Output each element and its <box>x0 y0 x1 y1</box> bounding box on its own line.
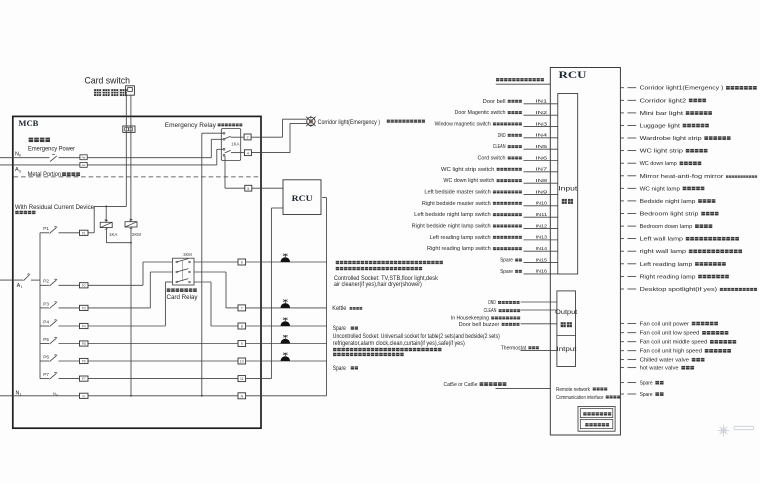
svg-text:2: 2 <box>247 136 249 140</box>
svg-text:Bedside night lamp: Bedside night lamp <box>640 199 696 205</box>
svg-text:8: 8 <box>241 325 243 329</box>
svg-text:CLEAN: CLEAN <box>493 144 506 150</box>
svg-text:Card Relay: Card Relay <box>167 294 199 301</box>
svg-text:P5: P5 <box>82 342 86 346</box>
svg-text:4: 4 <box>247 151 249 155</box>
svg-text:IN11: IN11 <box>536 212 548 218</box>
svg-text:MCB: MCB <box>18 118 38 128</box>
svg-text:11: 11 <box>240 377 244 381</box>
svg-text:WC down light switch: WC down light switch <box>443 178 494 184</box>
svg-text:Luggage light: Luggage light <box>640 123 681 129</box>
svg-text:IN13: IN13 <box>536 235 548 241</box>
svg-text:RCU: RCU <box>559 71 587 81</box>
svg-text:Intput: Intput <box>557 346 577 353</box>
svg-text:Left wall lamp: Left wall lamp <box>640 237 684 243</box>
svg-text:P4: P4 <box>82 325 86 329</box>
svg-text:With Residual Current Device: With Residual Current Device <box>15 204 95 211</box>
svg-text:Spare: Spare <box>640 392 653 398</box>
svg-text:Emergency Power: Emergency Power <box>28 146 76 153</box>
svg-text:Fan coil unit power: Fan coil unit power <box>640 321 690 327</box>
svg-text:WC light strip switch: WC light strip switch <box>441 167 495 173</box>
svg-text:Kettle: Kettle <box>332 305 346 312</box>
svg-text:CLEAN: CLEAN <box>484 308 497 314</box>
svg-text:IN10: IN10 <box>536 201 548 207</box>
svg-text:P3: P3 <box>43 301 49 306</box>
svg-text:Wardrobe light strip: Wardrobe light strip <box>640 136 702 142</box>
svg-text:6: 6 <box>241 261 243 265</box>
svg-text:IN5: IN5 <box>536 144 548 150</box>
svg-text:5: 5 <box>247 187 249 191</box>
svg-text:P2: P2 <box>43 279 49 284</box>
svg-text:2KM: 2KM <box>132 232 141 237</box>
svg-text:Right reading lamp switch: Right reading lamp switch <box>427 246 491 252</box>
svg-text:Left reading lamp: Left reading lamp <box>640 262 693 268</box>
svg-text:E: E <box>56 393 58 397</box>
svg-text:air cleaner(if yes),hair dryer: air cleaner(if yes),hair dryer(shower) <box>334 282 422 288</box>
svg-text:E: E <box>19 169 21 173</box>
svg-text:10: 10 <box>240 360 244 364</box>
svg-text:Ae: Ae <box>82 163 86 167</box>
svg-text:In Housekeeping: In Housekeeping <box>451 316 489 322</box>
svg-text:Corridor light(Emergency ): Corridor light(Emergency ) <box>318 119 381 126</box>
svg-text:IN3: IN3 <box>536 121 548 127</box>
svg-text:1: 1 <box>21 285 23 289</box>
svg-text:Spare: Spare <box>500 258 513 264</box>
svg-text:E: E <box>19 154 21 158</box>
svg-text:Window magnetic switch: Window magnetic switch <box>435 121 491 127</box>
svg-text:RCU: RCU <box>292 193 314 203</box>
svg-text:Desktop spotlight(if yes): Desktop spotlight(if yes) <box>640 287 718 293</box>
svg-text:IN12: IN12 <box>536 223 548 229</box>
svg-text:Bedroom light strip: Bedroom light strip <box>640 212 699 218</box>
svg-text:Door Magentic switch: Door Magentic switch <box>455 110 506 116</box>
svg-text:WC down lamp: WC down lamp <box>640 161 677 167</box>
svg-text:Mini bar light: Mini bar light <box>640 111 684 117</box>
svg-text:Input: Input <box>558 186 577 193</box>
svg-text:Thermostat: Thermostat <box>501 345 527 351</box>
svg-text:Ne: Ne <box>82 156 86 160</box>
svg-text:P6: P6 <box>82 360 86 364</box>
svg-text:Bedroom down lamp: Bedroom down lamp <box>640 224 693 230</box>
svg-text:Cord switch: Cord switch <box>478 156 506 162</box>
svg-text:Spare: Spare <box>333 365 346 372</box>
svg-text:IN9: IN9 <box>536 189 548 195</box>
svg-text:WC light strip: WC light strip <box>640 149 684 155</box>
svg-text:Cat5e or Cat6e: Cat5e or Cat6e <box>444 382 478 388</box>
svg-text:Emergency Relay: Emergency Relay <box>165 122 217 129</box>
svg-text:Corridor light1(Emergency ): Corridor light1(Emergency ) <box>640 86 724 92</box>
svg-text:IN1: IN1 <box>536 99 548 105</box>
svg-text:Controlled Socket: TV,STB,floo: Controlled Socket: TV,STB,floor light,de… <box>334 276 439 282</box>
svg-text:Mirror heat-anti-fog mirror: Mirror heat-anti-fog mirror <box>640 174 724 180</box>
svg-text:WC night lamp: WC night lamp <box>640 186 680 192</box>
svg-text:Corridor light2: Corridor light2 <box>640 98 687 104</box>
svg-text:Right bedside master switch: Right bedside master switch <box>422 201 491 207</box>
svg-text:IN6: IN6 <box>536 155 548 161</box>
svg-text:P7: P7 <box>43 372 49 377</box>
svg-text:Card switch: Card switch <box>85 75 131 86</box>
svg-text:1KA: 1KA <box>231 142 239 147</box>
svg-text:IN8: IN8 <box>536 178 548 184</box>
svg-text:7: 7 <box>241 307 243 311</box>
svg-text:Uncontrolled Socket: Universal: Uncontrolled Socket: Universall socket f… <box>333 334 500 340</box>
svg-text:IN2: IN2 <box>536 110 548 116</box>
svg-text:Fan coil unit low speed: Fan coil unit low speed <box>640 331 700 337</box>
svg-text:P7: P7 <box>82 377 86 381</box>
svg-text:1: 1 <box>20 393 22 397</box>
svg-text:Door bell: Door bell <box>483 99 506 105</box>
svg-text:P1: P1 <box>82 231 86 235</box>
svg-text:IN7: IN7 <box>536 167 548 173</box>
svg-text:P2: P2 <box>82 284 86 288</box>
svg-text:refrigerator,alarm clock,clean: refrigerator,alarm clock,clean,curtain(i… <box>333 341 465 347</box>
svg-text:Spare: Spare <box>640 381 653 387</box>
svg-text:right wall lamp: right wall lamp <box>640 249 687 255</box>
svg-text:IN14: IN14 <box>536 246 548 252</box>
svg-text:hot water valve: hot water valve <box>640 366 679 372</box>
svg-text:P3: P3 <box>82 306 86 310</box>
svg-text:Fan coil unit high speed: Fan coil unit high speed <box>640 349 703 355</box>
svg-text:1KA: 1KA <box>109 232 117 237</box>
svg-text:Right reading lamp: Right reading lamp <box>640 274 696 280</box>
svg-text:Remote network: Remote network <box>556 387 590 393</box>
svg-text:Spare: Spare <box>500 269 513 275</box>
svg-text:Fan coil unit middle speed: Fan coil unit middle speed <box>640 340 708 346</box>
svg-text:P5: P5 <box>43 337 49 342</box>
svg-text:P1: P1 <box>43 226 49 231</box>
svg-text:P4: P4 <box>43 319 49 324</box>
svg-text:DND: DND <box>498 133 506 139</box>
svg-text:IN15: IN15 <box>536 257 548 263</box>
svg-text:IN16: IN16 <box>536 269 548 275</box>
svg-text:Door bell buzzer: Door bell buzzer <box>459 322 500 328</box>
svg-text:Left bedside master switch: Left bedside master switch <box>424 190 490 196</box>
svg-text:Right bedside night lamp switc: Right bedside night lamp switch <box>412 224 491 230</box>
svg-text:Spare: Spare <box>333 325 346 332</box>
svg-text:DND: DND <box>488 300 496 306</box>
svg-text:Left reading lamp switch: Left reading lamp switch <box>430 235 491 241</box>
svg-text:9: 9 <box>241 342 243 346</box>
svg-text:2KM: 2KM <box>183 252 192 257</box>
svg-text:IN4: IN4 <box>536 133 548 139</box>
svg-text:Communication interface: Communication interface <box>556 395 604 401</box>
svg-text:Left bedside night lamp switch: Left bedside night lamp switch <box>414 212 491 218</box>
svg-text:Output: Output <box>555 309 577 316</box>
svg-text:Chilled water valve: Chilled water valve <box>640 358 690 364</box>
svg-text:P6: P6 <box>43 354 49 359</box>
